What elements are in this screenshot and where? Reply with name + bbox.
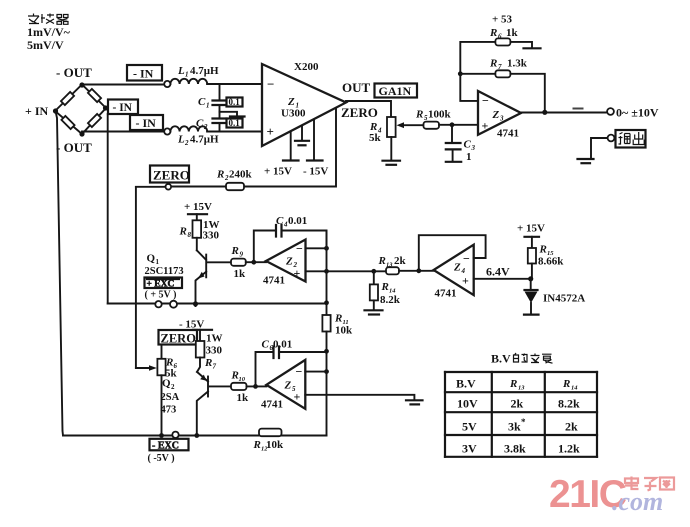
svg-text:1k: 1k <box>234 268 247 280</box>
svg-text:1k: 1k <box>506 27 519 39</box>
svg-text:473: 473 <box>161 405 177 416</box>
svg-text:4: 4 <box>461 267 466 275</box>
wire circle to ZERO net <box>136 186 166 188</box>
svg-text:0.1: 0.1 <box>229 118 241 128</box>
svg-text:13: 13 <box>518 385 525 392</box>
resistor R7 330 1W <box>196 341 205 358</box>
svg-text:1: 1 <box>466 151 472 163</box>
wire and ground for output terminal <box>591 138 608 158</box>
boxed value 0.1 <box>227 119 243 128</box>
terminal circle on rail <box>170 301 177 308</box>
svg-text:*: * <box>521 417 526 427</box>
svg-text:10k: 10k <box>266 439 284 451</box>
svg-text:+ IN: + IN <box>25 104 49 118</box>
svg-text:1: 1 <box>185 71 189 79</box>
junction on output <box>542 110 547 115</box>
svg-text:IN4572A: IN4572A <box>543 293 585 305</box>
resistor R6 1k <box>495 38 510 45</box>
resistor R11 10k <box>322 315 330 332</box>
svg-text:+: + <box>462 274 469 288</box>
boxed label ZERO (upper) <box>150 166 189 183</box>
resistor R14 8.2k <box>373 271 375 284</box>
svg-text:2k: 2k <box>565 420 578 434</box>
svg-text:0.1: 0.1 <box>229 97 241 107</box>
svg-text:Q: Q <box>147 253 156 265</box>
central column wire <box>326 231 328 316</box>
gauge element bottom-right <box>88 114 101 127</box>
svg-text:- OUT: - OUT <box>56 140 92 155</box>
boxed label +EXC <box>145 278 183 289</box>
wire L2 to U300 plus <box>207 131 262 133</box>
junction on feedback column <box>458 71 463 76</box>
terminal circle bottom <box>164 128 170 134</box>
op-amp Z4 4741 (mirrored) <box>434 245 474 295</box>
junction node <box>450 122 455 127</box>
svg-text:Q: Q <box>162 378 171 390</box>
svg-text:14: 14 <box>571 385 578 392</box>
resistor R15 8.66k <box>528 248 536 264</box>
wire Z3 output to terminal <box>521 112 607 114</box>
wire Z4 plus to reference node <box>474 278 531 280</box>
glyphs 输出 (drawn strokes) <box>619 132 645 145</box>
svg-text:+ 15V: + 15V <box>517 223 545 235</box>
svg-text:0.01: 0.01 <box>273 339 292 351</box>
svg-text:C: C <box>464 139 472 151</box>
svg-text:4741: 4741 <box>435 288 457 300</box>
wire bottom vertex to L2 <box>82 131 164 133</box>
table grid <box>445 372 597 457</box>
svg-text:5: 5 <box>292 385 296 393</box>
svg-text:4741: 4741 <box>497 128 519 140</box>
wire R8 to Q1 collector <box>196 238 198 251</box>
wire L1 to U300 minus <box>207 83 262 85</box>
wire R7 to Q2 <box>197 358 200 372</box>
svg-text:3V: 3V <box>462 442 477 456</box>
op-amp Z3 4741 <box>478 91 521 135</box>
svg-text:−: − <box>296 365 303 379</box>
svg-text:1.2k: 1.2k <box>558 442 580 456</box>
svg-text:3: 3 <box>499 115 504 123</box>
boxed label -IN (top) <box>127 65 162 81</box>
svg-text:C: C <box>198 96 206 108</box>
svg-text:R: R <box>562 378 570 390</box>
svg-text:ZERO: ZERO <box>161 332 197 346</box>
svg-text:3k: 3k <box>508 420 521 434</box>
svg-text:+: + <box>482 119 489 133</box>
svg-text:R: R <box>334 313 342 325</box>
svg-text:L: L <box>177 65 185 77</box>
svg-text:ZERO: ZERO <box>341 105 378 120</box>
boxed label -EXC <box>150 439 189 451</box>
svg-text:3.8k: 3.8k <box>504 442 526 456</box>
svg-text:1mV/V~: 1mV/V~ <box>27 25 71 39</box>
output terminal 输出 <box>608 135 615 142</box>
svg-text:10k: 10k <box>335 325 353 337</box>
svg-text:−: − <box>267 77 274 92</box>
-EXC excitation rail <box>63 435 259 437</box>
title text 变换器 (drawn strokes) <box>28 14 68 25</box>
svg-text:8: 8 <box>188 231 192 239</box>
svg-text:R: R <box>231 245 239 257</box>
svg-text:Z: Z <box>285 256 293 268</box>
svg-text:330: 330 <box>203 230 220 242</box>
wire R10 to Z5 output <box>247 385 267 387</box>
svg-text:C: C <box>196 118 204 130</box>
svg-text:2: 2 <box>171 383 175 391</box>
svg-text:R: R <box>539 244 547 256</box>
capacitor C6 0.01 feedback <box>256 352 274 386</box>
svg-text:.com: .com <box>612 487 663 516</box>
op-amp U300 / Z1 <box>262 64 346 146</box>
svg-text:13: 13 <box>386 262 393 269</box>
svg-text:6: 6 <box>498 33 502 41</box>
svg-text:−: − <box>463 252 470 266</box>
wire Z5 plus to ground <box>305 395 414 400</box>
svg-text:2: 2 <box>203 123 208 131</box>
svg-text:2SC1173: 2SC1173 <box>145 266 184 277</box>
svg-text:R: R <box>204 357 212 369</box>
ground pin of U300 <box>301 126 303 141</box>
capacitor C2 <box>213 119 227 124</box>
supply pin +15V of U300 <box>290 132 292 161</box>
svg-text:0.01: 0.01 <box>288 215 307 227</box>
wire Z2 minus to column <box>306 247 327 249</box>
svg-text:2: 2 <box>293 261 298 269</box>
svg-text:5V: 5V <box>462 420 477 434</box>
wire ZERO pin down and left <box>171 108 336 187</box>
op-amp Z2 4741 (mirrored) <box>266 240 306 282</box>
resistor R5 100k <box>424 122 440 129</box>
svg-text:240k: 240k <box>229 169 253 181</box>
svg-text:7: 7 <box>213 363 217 371</box>
svg-text:- EXC: - EXC <box>152 441 179 452</box>
svg-text:1k: 1k <box>237 392 250 404</box>
svg-text:2k: 2k <box>394 255 407 267</box>
+EXC excitation rail <box>108 303 327 305</box>
svg-text:−: − <box>296 242 303 256</box>
svg-text:+ EXC: + EXC <box>147 280 175 290</box>
svg-text:- IN: - IN <box>133 67 154 81</box>
small circle on rail <box>172 432 178 438</box>
wire R7 to output node <box>510 74 544 112</box>
terminal circle on rail <box>155 301 161 307</box>
resistor R13 2k <box>386 267 399 274</box>
transistor Q1 2SC1173 <box>196 250 232 306</box>
wire R6 to ground <box>510 42 532 48</box>
svg-text:9: 9 <box>240 251 244 259</box>
svg-text:0~ ±10V: 0~ ±10V <box>616 106 659 120</box>
wire R5 to Z3 plus <box>439 124 478 126</box>
gauge element top-right <box>88 89 101 102</box>
svg-text:7: 7 <box>498 63 502 71</box>
svg-text:C: C <box>262 339 270 351</box>
svg-text:Z: Z <box>492 109 500 121</box>
svg-text:R: R <box>381 281 389 293</box>
svg-text:2k: 2k <box>511 397 524 411</box>
wire ZERO net vertical <box>135 187 137 368</box>
wire Z2 plus to R13 node <box>306 270 387 272</box>
svg-text:B.V: B.V <box>491 352 511 366</box>
Z4 feedback loop <box>419 235 486 271</box>
svg-text:1: 1 <box>156 258 160 266</box>
watermark 电子网 (drawn strokes) <box>625 477 674 491</box>
resistor R12 10k <box>259 429 282 437</box>
svg-text:100k: 100k <box>428 109 452 121</box>
svg-text:Z: Z <box>287 96 295 108</box>
svg-text:Z: Z <box>284 380 292 392</box>
ground at C1/C2 midpoint <box>220 112 238 116</box>
boxed label GAIN <box>375 84 418 98</box>
svg-text:ZERO: ZERO <box>153 168 190 183</box>
transistor Q2 2SA473 <box>197 372 231 436</box>
svg-text:R: R <box>378 255 386 267</box>
wire right vertex down to +EXC rail <box>107 114 109 304</box>
svg-text:R: R <box>489 58 497 70</box>
svg-text:1.3k: 1.3k <box>507 58 528 70</box>
svg-text:C: C <box>276 215 284 227</box>
capacitor C4 0.01 feedback <box>254 231 276 263</box>
potentiometer R4 5k <box>387 117 396 137</box>
wire Z3 minus input loop <box>460 42 495 101</box>
svg-text:+ 15V: + 15V <box>184 201 212 213</box>
boxed label ZERO (lower) <box>159 330 198 345</box>
boxed label +IN (middle) <box>108 100 138 115</box>
output terminal circle <box>607 108 614 115</box>
svg-text:- 15V: - 15V <box>303 166 328 178</box>
svg-text:10V: 10V <box>457 397 478 411</box>
supply pin -15V of U300 <box>313 120 315 161</box>
svg-text:4741: 4741 <box>263 275 285 287</box>
terminal circle on ZERO wire <box>166 184 172 190</box>
svg-text:8.2k: 8.2k <box>380 294 401 306</box>
wiper arrow into R4 <box>400 124 424 126</box>
resistor R7 1.3k <box>495 70 510 77</box>
svg-text:330: 330 <box>206 345 223 357</box>
resistor R10 1k <box>231 383 247 390</box>
pot R6 5k <box>161 345 163 359</box>
svg-text:+ 15V: + 15V <box>264 166 292 178</box>
wire R13 to Z4 output <box>399 270 434 272</box>
svg-text:5k: 5k <box>369 132 382 144</box>
svg-text:R: R <box>253 439 261 451</box>
resistor R9 1k <box>231 259 246 266</box>
svg-text:GA1N: GA1N <box>379 84 412 98</box>
wire top vertex to L1 <box>82 84 164 86</box>
svg-text:- IN: - IN <box>136 116 157 130</box>
capacitor C1 <box>219 84 221 100</box>
inductor L2 <box>170 126 207 131</box>
resistor R8 330 1W <box>193 220 202 238</box>
svg-text:+: + <box>267 124 274 139</box>
svg-text:- IN: - IN <box>113 102 133 114</box>
svg-text:R: R <box>489 27 497 39</box>
svg-text:Z: Z <box>453 262 461 274</box>
svg-text:2SA: 2SA <box>161 392 180 403</box>
svg-text:X200: X200 <box>294 61 319 73</box>
boxed value 0.1 <box>227 98 243 107</box>
svg-text:1W: 1W <box>206 333 223 345</box>
svg-text:R: R <box>216 169 224 181</box>
svg-text:R: R <box>415 109 423 121</box>
svg-text:4741: 4741 <box>261 399 283 411</box>
svg-text:( -5V ): ( -5V ) <box>148 453 175 464</box>
svg-text:4.7μH: 4.7μH <box>190 134 219 146</box>
bridge transducer (strain-gauge diamond) <box>53 82 108 136</box>
svg-text:1: 1 <box>206 102 210 110</box>
wire feedback through R7 <box>460 73 495 75</box>
svg-text:+ 53: + 53 <box>492 14 513 26</box>
svg-text:2: 2 <box>184 139 189 147</box>
terminal circle top <box>164 81 170 87</box>
svg-text:4.7μH: 4.7μH <box>190 65 219 77</box>
inductor L1 <box>170 79 207 84</box>
junction Q1 emitter at rail <box>193 301 198 306</box>
svg-text:R: R <box>509 378 517 390</box>
boxed label -IN (bottom) <box>130 115 163 130</box>
svg-text:8.2k: 8.2k <box>558 397 580 411</box>
svg-text:U300: U300 <box>281 108 306 120</box>
svg-text:8.66k: 8.66k <box>538 256 564 268</box>
wire left vertex down to -EXC rail <box>56 111 64 436</box>
svg-text:( + 5V ): ( + 5V ) <box>145 290 177 301</box>
svg-text:OUT: OUT <box>342 80 371 95</box>
svg-text:−: − <box>482 94 489 108</box>
wire U300 output to R4 pot <box>346 101 391 117</box>
svg-text:B.V: B.V <box>456 377 476 391</box>
wire R9 to Z2 output <box>246 261 266 263</box>
svg-text:R: R <box>179 226 187 238</box>
svg-text:10: 10 <box>239 376 246 383</box>
svg-text:5mV/V: 5mV/V <box>27 38 64 52</box>
op-amp Z5 4741 (mirrored) <box>266 360 305 409</box>
wiper arrow into R6 from ZERO net <box>136 367 150 369</box>
gauge element bottom-left <box>61 116 74 129</box>
gauge element top-left <box>61 92 74 105</box>
capacitor C3 1 <box>451 125 453 143</box>
resistor R2 240k <box>226 183 244 190</box>
zener diode IN4572A <box>530 279 532 290</box>
svg-text:- OUT: - OUT <box>56 65 92 80</box>
wire Z5 minus to column <box>305 371 326 373</box>
svg-text:6.4V: 6.4V <box>486 265 510 279</box>
svg-text:L: L <box>177 134 185 146</box>
